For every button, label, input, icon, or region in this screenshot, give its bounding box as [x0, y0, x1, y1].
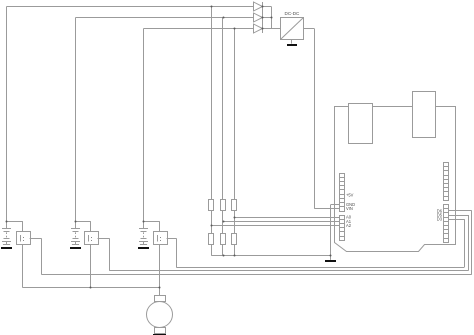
Arduino USB connector	[349, 104, 373, 144]
wire OR bus vertical	[271, 7, 273, 29]
wire resistor R2b to ground bus	[222, 245, 224, 256]
wire Arduino D6 to switch S1 control	[30, 211, 472, 275]
svg-text:DC-DC: DC-DC	[285, 11, 300, 16]
junction ground bus / Arduino GND	[330, 255, 332, 257]
ground (Arduino GND)	[325, 260, 336, 262]
wire battery 2 positive rail (left vertical + top row to diode D2 anode)	[76, 18, 254, 222]
ground (battery BT3)	[138, 245, 149, 250]
resistor R3a (upper divider)	[232, 200, 237, 211]
wire battery 3 positive rail (left vertical + top row to diode D3 anode)	[144, 29, 254, 222]
junction row1/divider col1	[211, 6, 213, 8]
diode D3	[254, 24, 263, 33]
junction divider tap A0	[234, 217, 236, 219]
wire D1 cathode to OR bus	[262, 6, 271, 8]
junction divider tap A2	[211, 225, 213, 227]
wire switch S3 output to motor	[159, 245, 161, 296]
wire between divider resistors col 2	[222, 211, 224, 234]
wire Arduino D3 to switch S3 control	[167, 219, 465, 267]
junction battery BT3 positive	[143, 221, 145, 223]
battery BT1	[2, 221, 11, 244]
ground (motor)	[153, 334, 166, 335]
junction ground bus col3	[234, 255, 236, 257]
svg-text:A2: A2	[346, 223, 352, 228]
junction OR bus	[271, 17, 273, 19]
Arduino left pin header (power pins)	[339, 174, 344, 212]
wire D2 cathode to OR bus	[262, 17, 271, 19]
pin label A0	[346, 215, 352, 220]
wire between divider resistors col 1	[211, 211, 213, 234]
wire diode cathode bars (common vertical)	[262, 2, 264, 33]
wire battery 1 positive rail (left vertical + top row to diode D1 anode)	[7, 7, 254, 222]
wire from row 1 down divider column 1	[211, 7, 213, 200]
wire from row 3 down divider column 3	[234, 29, 236, 200]
resistor R2a (upper divider)	[221, 200, 226, 211]
junction row3/divider col3	[234, 28, 236, 30]
resistor R1b (lower divider)	[209, 234, 214, 245]
junction D3 cathode	[262, 28, 264, 30]
svg-text:D3: D3	[437, 217, 443, 222]
wire divider tap to A0	[234, 217, 339, 219]
wire resistor R3b to ground bus	[234, 245, 236, 256]
Arduino board U2 outline	[335, 107, 456, 252]
junction D1 cathode	[262, 6, 264, 8]
wire switch S1 output down	[22, 245, 24, 288]
junction battery BT1 positive	[6, 221, 8, 223]
junction motor bus / motor wire	[159, 287, 161, 289]
Arduino right pin header (D7-D0)	[444, 205, 449, 243]
svg-text:+5V: +5V	[346, 193, 354, 198]
wire DC-DC output to VIN	[304, 29, 340, 209]
wire between divider resistors col 3	[234, 211, 236, 234]
wire motor supply bus	[23, 287, 160, 289]
pin label D5	[437, 213, 443, 218]
wire battery 2 top junction to switch S2	[76, 221, 91, 231]
ground (DC-DC)	[287, 40, 297, 46]
wire D3 cathode to DC-DC input	[262, 28, 280, 30]
wire resistor ground bus	[212, 255, 331, 257]
pin label GND	[346, 202, 355, 207]
junction D2 cathode	[262, 17, 264, 19]
wire battery 3 top junction to switch S3	[144, 221, 160, 231]
Arduino left pin header (analog pins A0-A5)	[339, 216, 344, 241]
wire resistor R1b to ground bus	[211, 245, 213, 256]
pin label A1	[346, 219, 352, 224]
pin label D3	[437, 217, 443, 222]
diode D2	[254, 13, 263, 22]
switch S1 box	[17, 232, 31, 245]
resistor R1a (upper divider)	[209, 200, 214, 211]
wire Arduino GND pin to ground	[331, 205, 340, 260]
DC-DC converter U1	[280, 11, 303, 40]
switch S3 box	[154, 232, 168, 245]
resistor R2b (lower divider)	[221, 234, 226, 245]
Arduino power jack	[413, 92, 436, 138]
junction battery BT2 positive	[75, 221, 77, 223]
battery BT3	[139, 221, 148, 244]
wire divider tap to A1	[223, 221, 339, 223]
pin label A2	[346, 223, 352, 228]
pin label D6	[437, 208, 443, 213]
battery BT2	[71, 221, 80, 244]
wire divider tap to A2	[212, 225, 340, 227]
junction row2/divider col2	[223, 17, 225, 19]
pin label VIN	[346, 206, 353, 211]
pin label +5V	[346, 193, 354, 198]
ground (battery BT2)	[70, 245, 81, 250]
junction motor bus / switch S2 output	[90, 287, 92, 289]
svg-text:VIN: VIN	[346, 206, 353, 211]
wire from row 2 down divider column 2	[222, 18, 224, 200]
junction divider tap A1	[223, 221, 225, 223]
switch S2 box	[85, 232, 99, 245]
junction ground bus col2	[223, 255, 225, 257]
ground (battery BT1)	[1, 245, 12, 250]
motor M1	[147, 296, 173, 334]
wire battery 1 top junction to switch S1	[7, 221, 23, 231]
Arduino right pin header (AREF/GND/D13-D8)	[444, 163, 449, 201]
resistor R3b (lower divider)	[232, 234, 237, 245]
wire switch S2 output down	[90, 245, 92, 288]
diode D1	[254, 2, 263, 11]
wire Arduino D5 to switch S2 control	[98, 215, 469, 271]
